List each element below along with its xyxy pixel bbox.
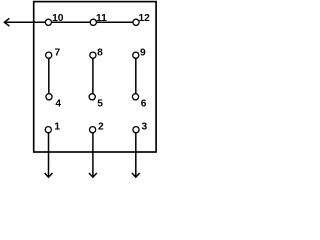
svg-text:7: 7 [55,48,61,59]
wire: link bar terminal 7 to terminal 4 [48,55,50,97]
wire: link bar terminal 9 to terminal 6 [135,55,137,97]
terminal 2 [90,127,96,133]
wire: link bar terminal 8 to terminal 5 [92,55,94,97]
terminal 6 [132,94,138,100]
terminal 7 [46,52,52,58]
svg-text:12: 12 [139,13,151,24]
svg-text:1: 1 [54,122,60,133]
svg-text:5: 5 [97,98,103,109]
wire: supply lead from terminal 2 out of box bottom [92,130,94,177]
arrow: lead 3 arrowhead [132,173,140,177]
terminal 9 [133,52,139,58]
wire: supply lead from terminal 1 out of box bottom [48,130,50,177]
wire: top bus linking terminals 10,11,12 and lead exiting box on the left [4,21,136,23]
terminal 4 [46,94,52,100]
terminal 5 [89,94,95,100]
terminal 12 [133,19,139,25]
arrow: lead 2 arrowhead [89,173,97,177]
terminal 1 [45,127,51,133]
terminal 3 [133,127,139,133]
terminal 10 [45,19,51,25]
svg-text:4: 4 [55,98,61,109]
svg-text:10: 10 [52,13,64,24]
terminal 8 [90,52,96,58]
svg-text:2: 2 [98,122,104,133]
terminal 11 [90,19,96,25]
arrow: lead 1 arrowhead [45,173,53,177]
svg-text:3: 3 [142,122,148,133]
svg-text:8: 8 [97,48,103,59]
arrow: left lead arrowhead [4,18,9,26]
wire: supply lead from terminal 3 out of box bottom [135,130,137,177]
svg-text:6: 6 [141,98,147,109]
terminal box outline [34,2,156,152]
svg-text:9: 9 [140,48,146,59]
svg-text:11: 11 [96,13,107,24]
